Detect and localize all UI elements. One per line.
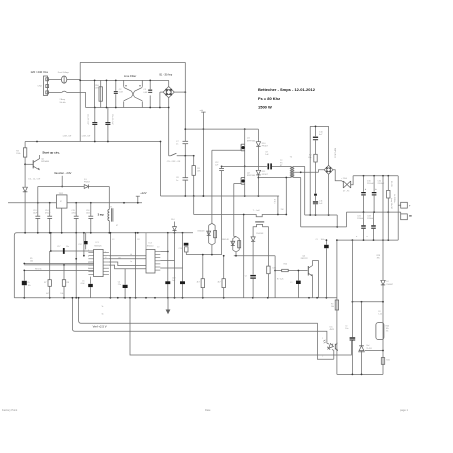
wire vertical feed B <box>83 233 85 256</box>
wire phase from connector to fuse <box>48 78 62 80</box>
svg-text:47k: 47k <box>197 171 200 173</box>
resistor R30 on sense <box>335 300 338 310</box>
wire feedback run 3 <box>130 298 351 355</box>
wire output -V rail <box>337 239 398 241</box>
wire Q4 emitter <box>312 276 314 298</box>
capacitor C13 aux <box>37 203 39 216</box>
svg-text:100n: 100n <box>86 213 90 215</box>
resistor R1 inrush <box>193 156 195 166</box>
capacitor C14 aux <box>49 203 51 216</box>
diode-resistor gate network 2 <box>232 239 234 251</box>
svg-text:Fs = 80 Khz: Fs = 80 Khz <box>258 96 280 101</box>
svg-text:470uF: 470uF <box>71 213 77 215</box>
svg-text:2200uF: 2200uF <box>357 218 365 220</box>
wire driver out 3 <box>160 267 182 269</box>
svg-text:C1b 47n 1kV: C1b 47n 1kV <box>111 114 113 125</box>
common-mode choke L1 <box>123 80 125 86</box>
wire gate net 1 return <box>186 254 221 256</box>
diode D14 bootstrap <box>174 222 176 227</box>
svg-text:+ 25 A: + 25 A <box>341 177 347 180</box>
svg-text:CN2: CN2 <box>38 86 43 88</box>
resistor RT timing <box>23 270 25 280</box>
svg-text:1n: 1n <box>176 143 178 145</box>
transistor Q1 IRFP460 <box>244 129 246 196</box>
svg-text:10n: 10n <box>345 328 348 330</box>
wire rail drop D <box>182 233 184 298</box>
capacitor C32 2200uF <box>373 176 375 192</box>
wire TL431 top rail <box>352 301 383 303</box>
svg-text:10k: 10k <box>28 285 31 287</box>
wire sense drop mid <box>243 215 245 298</box>
svg-text:RV1 5k: RV1 5k <box>35 268 42 270</box>
wire vertical feed A <box>75 233 77 298</box>
svg-text:2 Amp: 2 Amp <box>60 98 67 101</box>
capacitor C9 1uF series with primary <box>222 165 267 167</box>
capacitor C15 aux <box>75 203 77 216</box>
regulator IC2 7812 <box>56 195 67 208</box>
capacitor C5 47uF <box>90 277 92 284</box>
svg-text:R# 1W: R# 1W <box>390 181 392 187</box>
wire Q1 source return run <box>221 166 223 168</box>
capacitor C10 snubber <box>315 126 317 136</box>
svg-text:1: 1 <box>322 338 323 340</box>
diode D11 FR107 <box>256 170 260 175</box>
svg-text:Start up circ.: Start up circ. <box>42 150 60 154</box>
wire feedback run 1 <box>79 298 334 359</box>
svg-text:10n: 10n <box>66 246 69 248</box>
wire output mid rail <box>347 211 401 213</box>
diode-resistor gate network 1 <box>208 225 210 243</box>
wire phase fuse to filter <box>67 78 80 80</box>
resistor R28 divider <box>382 240 384 280</box>
wire feedback run 2 <box>72 298 327 344</box>
svg-text:R8: R8 <box>67 282 69 284</box>
fuse F1 <box>61 76 66 83</box>
wire driver out 2 <box>160 260 174 262</box>
capacitor C7 0,68 series <box>183 140 189 142</box>
regulator ground lead <box>61 208 63 233</box>
wire bridge DC+ to bus <box>174 91 185 93</box>
wire feedback bottom rail <box>337 373 383 375</box>
svg-text:IRFP460: IRFP460 <box>247 175 256 177</box>
resistor R2 snubber <box>314 154 317 162</box>
capacitor C3 X2 <box>149 80 151 89</box>
transformer T2 main <box>290 166 293 177</box>
svg-text:11: 11 <box>105 252 107 254</box>
resistor R shunt sense <box>277 196 279 215</box>
opto-coupler IC5 4N25 LED <box>326 342 335 351</box>
wire +12V rail <box>8 202 56 204</box>
wire bridge top stub <box>168 80 170 86</box>
wire DC- bottom rail <box>161 195 280 197</box>
capacitor C16 aux <box>90 203 92 216</box>
capacitor C11 snubber <box>315 196 317 201</box>
wire driver out 1 <box>160 251 168 253</box>
svg-text:4k7: 4k7 <box>218 281 221 283</box>
resistor R bleeder <box>382 176 384 240</box>
svg-text:2: 2 <box>322 356 323 358</box>
svg-text:R 0,1: R 0,1 <box>273 199 275 204</box>
bridge rectifier B2 output <box>328 126 330 165</box>
wire clamp branch <box>257 129 259 142</box>
wire earth rail <box>25 141 160 143</box>
capacitor C8 0,68 series <box>184 156 186 178</box>
svg-text:D5 - 1k - 5 W: D5 - 1k - 5 W <box>28 179 40 181</box>
wire output +V rail <box>353 175 398 177</box>
svg-text:D14: D14 <box>171 219 174 221</box>
svg-text:Ref: Ref <box>366 345 369 347</box>
svg-text:8: 8 <box>88 250 89 252</box>
svg-text:1N4148: 1N4148 <box>256 233 264 235</box>
svg-text:1,5M - 1W: 1,5M - 1W <box>82 136 91 138</box>
wire mid rail return corner <box>346 212 348 227</box>
svg-text:Vo 200Vdc: Vo 200Vdc <box>393 194 395 203</box>
svg-text:39k: 39k <box>377 258 380 260</box>
wire primary sense drop <box>285 178 287 215</box>
resistor R50 470k <box>100 80 102 107</box>
wire Q2 gate <box>234 183 241 185</box>
capacitor C17 timing <box>50 233 52 251</box>
wire Vaux stub <box>61 176 63 187</box>
svg-text:MPSA44: MPSA44 <box>41 160 50 163</box>
inductor L output ferrite <box>342 181 344 188</box>
svg-text:TL431: TL431 <box>366 348 371 350</box>
resistor R divider top on output <box>387 176 389 191</box>
svg-text:Vauxliar - 24V: Vauxliar - 24V <box>54 171 71 175</box>
wire bridge left terminal drop <box>160 91 163 93</box>
svg-text:10k: 10k <box>60 293 63 295</box>
capacitor C20 on T3 secondary <box>250 275 256 277</box>
wire bridge bottom to switch <box>168 98 170 156</box>
svg-text:1N4148: 1N4148 <box>222 239 230 241</box>
wire driver supply <box>145 233 147 250</box>
svg-text:1500 W: 1500 W <box>258 104 272 109</box>
svg-text:+12V: +12V <box>140 191 147 195</box>
resistor pulldown gate 1 <box>202 255 204 279</box>
svg-text:lamp 24v 3W: lamp 24v 3W <box>390 198 392 209</box>
svg-text:2N2222: 2N2222 <box>301 258 309 260</box>
diode D1 FR207 <box>84 185 88 189</box>
svg-text:1,5M - 1W: 1,5M - 1W <box>63 136 72 138</box>
zener D20 <box>381 280 385 285</box>
wire neutral down <box>85 92 87 107</box>
svg-text:Date: Date <box>205 408 211 412</box>
svg-text:4: 4 <box>88 256 89 258</box>
svg-text:2200uF: 2200uF <box>367 218 375 220</box>
svg-text:470uF: 470uF <box>45 213 51 215</box>
wire sense top drop <box>351 240 353 302</box>
svg-text:470k: 470k <box>95 88 99 90</box>
svg-text:Lo: Lo <box>130 261 132 263</box>
resistor R41 lower divider <box>381 358 384 365</box>
capacitor C33 2200uF <box>373 212 375 225</box>
svg-text:22n: 22n <box>118 284 121 286</box>
wire Vaux rail <box>38 186 84 188</box>
capacitor C31 2200uF <box>363 212 365 225</box>
svg-text:FR107: FR107 <box>262 174 269 176</box>
transformer T1 aux winding <box>108 209 109 220</box>
wire earth drop to DC minus <box>160 142 162 197</box>
capacitor C23 comp <box>351 302 353 337</box>
svg-text:KBPC3510: KBPC3510 <box>334 148 336 159</box>
resistor R on T3 secondary <box>267 246 269 267</box>
wire IC1 pin runs left <box>51 250 94 252</box>
node +12V stub <box>137 196 139 203</box>
capacitor C22 HF <box>325 240 327 245</box>
svg-text:1n: 1n <box>176 180 178 182</box>
capacitor C bypass IC1 <box>84 241 88 244</box>
bridge rectifier B1 35 Amp <box>163 87 174 98</box>
resistor R40 upper divider <box>376 323 384 340</box>
wire secondary bottom <box>294 177 301 179</box>
svg-text:C1a 47n 1kV: C1a 47n 1kV <box>87 114 89 125</box>
wire choke to +V rail <box>351 176 353 185</box>
svg-text:10k: 10k <box>331 306 334 308</box>
svg-text:C17: C17 <box>57 246 60 248</box>
wire secondary top <box>294 165 305 167</box>
svg-text:Slo blo: Slo blo <box>60 102 67 104</box>
svg-text:Factory Point: Factory Point <box>2 408 18 412</box>
svg-text:page 1: page 1 <box>400 408 408 412</box>
wire neutral bottom rail <box>86 107 169 109</box>
wire bottom rail <box>14 297 337 299</box>
capacitor C30 2200uF <box>363 176 365 192</box>
diode D10 FR107 <box>256 142 260 147</box>
svg-text:47k: 47k <box>308 157 311 159</box>
wire B2 right to inductor <box>333 170 342 181</box>
capacitor C21 at Q4 base <box>297 271 299 281</box>
wire DC+ vertical bus <box>184 62 186 141</box>
wire aux winding drop <box>108 187 110 210</box>
connector CN3 output terminals <box>401 202 408 208</box>
svg-text:FR107: FR107 <box>262 145 269 147</box>
node VDD net stub <box>202 112 204 196</box>
wire ground rail <box>14 233 193 298</box>
svg-text:100n: 100n <box>321 239 325 241</box>
svg-text:4N25: 4N25 <box>330 329 335 331</box>
svg-text:SG3525: SG3525 <box>94 245 102 247</box>
svg-text:IRFP460: IRFP460 <box>247 140 256 142</box>
wire Q1 gate <box>212 149 241 151</box>
svg-text:Vref +2.5 V: Vref +2.5 V <box>93 324 107 328</box>
svg-text:120 / 240 Vca: 120 / 240 Vca <box>31 70 49 74</box>
wire vertical run B <box>135 233 137 298</box>
transistor Q5 start-up <box>24 157 26 187</box>
svg-text:1%: 1% <box>386 331 389 333</box>
svg-text:FR207: FR207 <box>84 181 91 183</box>
wire -V sense drop <box>336 240 338 374</box>
wire snubber left vertical <box>309 126 311 215</box>
capacitor C2 X2 <box>106 80 108 107</box>
svg-text:4k7: 4k7 <box>46 293 49 295</box>
resistor R3 150k <box>24 142 26 148</box>
wire IC1 outputs to driver <box>109 255 146 257</box>
opto-coupler IC5 phototransistor <box>334 344 336 350</box>
capacitor C1b Y <box>107 108 109 123</box>
svg-text:4k7: 4k7 <box>197 281 200 283</box>
svg-text:Line Filter: Line Filter <box>124 74 136 78</box>
svg-text:T ~ hall: T ~ hall <box>253 210 260 212</box>
wire vertical run A <box>109 233 111 298</box>
wire TL431 ref to divider <box>365 350 383 352</box>
svg-text:R# 2,2k: R# 2,2k <box>277 278 284 280</box>
wire DC+ rail to switches <box>185 128 258 130</box>
wire snubber bottom rail <box>305 214 338 216</box>
wire earth top run <box>80 61 185 63</box>
svg-text:14: 14 <box>105 257 107 259</box>
svg-text:10k: 10k <box>30 261 33 263</box>
transistor Q2 IRFP460 <box>241 177 245 179</box>
wire primary bottom <box>258 177 290 179</box>
svg-text:C19: C19 <box>179 248 182 250</box>
wire secondary return run <box>301 226 347 228</box>
svg-text:2200uF: 2200uF <box>367 183 375 185</box>
svg-text:5W: 5W <box>281 209 284 211</box>
svg-text:C12: C12 <box>78 244 81 246</box>
wire Q4 collector <box>313 261 319 298</box>
svg-text:CN - OFF - ON: CN - OFF - ON <box>167 161 181 163</box>
svg-text:IR2110: IR2110 <box>147 246 154 248</box>
svg-text:3 mp: 3 mp <box>98 212 104 216</box>
capacitor C1a Y <box>94 108 96 123</box>
svg-text:1,2k: 1,2k <box>378 314 382 316</box>
svg-text:2: 2 <box>88 262 89 264</box>
wire rail drop C18 <box>167 233 169 298</box>
resistor R8 <box>63 265 65 280</box>
wire Vaux to caps <box>37 187 39 203</box>
capacitor / resistor cluster before gates <box>184 243 189 246</box>
varistor RV <box>94 80 96 107</box>
connector CN2 mains input <box>44 76 48 96</box>
diode D T3 secondary <box>252 235 254 238</box>
wire rail y240 extension <box>336 239 338 241</box>
op-amp IC3 driver <box>146 250 155 274</box>
capacitor C6 <box>124 269 126 285</box>
wire secondary center tap <box>294 171 319 173</box>
wire net2 return to Q4 column <box>234 255 275 257</box>
wire neutral with fuse F2 <box>48 91 62 93</box>
wire snubber top <box>310 125 328 127</box>
wire earth left vertical <box>79 62 81 141</box>
shunt regulator U4 TL431 <box>361 302 363 346</box>
node Q1 source / primary <box>244 166 246 168</box>
wire output right vertical <box>397 176 399 240</box>
svg-text:R41: R41 <box>386 359 389 361</box>
svg-text:R24: R24 <box>284 264 287 266</box>
svg-text:1N4007: 1N4007 <box>386 284 393 286</box>
switch SW mains select <box>169 155 171 157</box>
svg-text:Bettecher - Smps - 12-01-2012: Bettecher - Smps - 12-01-2012 <box>258 87 316 92</box>
svg-text:2200uF: 2200uF <box>378 183 386 185</box>
svg-text:5k: 5k <box>102 313 104 315</box>
resistor pulldown gate 2 <box>223 256 225 279</box>
svg-text:5: 5 <box>88 268 89 270</box>
svg-text:1N4148: 1N4148 <box>197 230 205 232</box>
svg-text:B1 - 35 Amp: B1 - 35 Amp <box>160 74 173 77</box>
wire Q5 collector <box>39 155 41 159</box>
svg-text:Fast 8 Amp: Fast 8 Amp <box>58 71 70 74</box>
op-amp IC1 SG3525 PWM <box>94 249 104 276</box>
ground arrow net <box>167 298 169 310</box>
resistor R7 <box>49 251 51 280</box>
svg-text:150k: 150k <box>16 153 20 155</box>
svg-text:4T - Fe: 4T - Fe <box>343 191 350 193</box>
svg-text:R7: R7 <box>44 282 46 284</box>
zener D2 start-up <box>23 187 28 192</box>
wire secondary top drop <box>304 166 306 215</box>
